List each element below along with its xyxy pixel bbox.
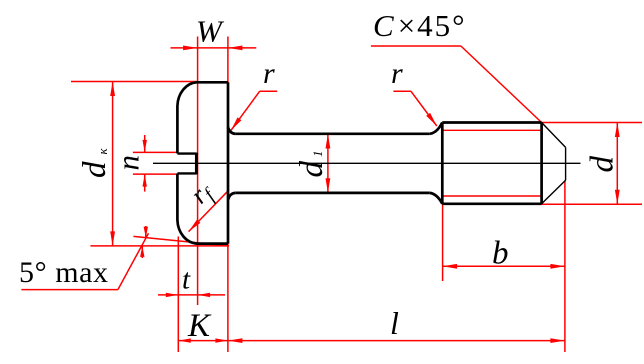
leader for C x 45 chamfer bbox=[371, 45, 461, 47]
svg-text:t: t bbox=[182, 264, 191, 296]
dimension t line bbox=[158, 294, 225, 296]
dimension b extension lines bbox=[442, 204, 444, 281]
svg-text:l: l bbox=[390, 305, 399, 341]
thread runout fillet bottom bbox=[430, 193, 443, 204]
thread minor diameter lines bbox=[442, 129, 541, 131]
svg-text:W: W bbox=[196, 14, 225, 49]
extension line at head left face (K/t left) bbox=[177, 237, 179, 353]
leader for r at head fillet bbox=[260, 90, 278, 92]
dimension d line bbox=[616, 123, 618, 205]
shank top line bbox=[236, 132, 430, 135]
dimension W line bbox=[171, 47, 257, 49]
slot bbox=[177, 152, 196, 154]
5 deg angle arrows bbox=[145, 226, 147, 238]
svg-text:K: K bbox=[187, 308, 212, 344]
head bearing face bbox=[227, 82, 230, 243]
fillet r under head bottom bbox=[228, 193, 236, 200]
dimension d_k extension line top bbox=[71, 81, 198, 83]
svg-text:d: d bbox=[585, 156, 621, 173]
threaded portion outline bbox=[441, 123, 444, 204]
svg-text:5°max: 5°max bbox=[19, 256, 109, 289]
dimension K line bbox=[178, 340, 228, 342]
svg-text:b: b bbox=[492, 236, 509, 272]
head outline bbox=[177, 82, 228, 106]
dimension b line bbox=[443, 265, 565, 267]
svg-text:r: r bbox=[391, 57, 403, 90]
svg-text:C×45°: C×45° bbox=[373, 8, 467, 43]
thread runout fillet top bbox=[430, 123, 443, 134]
dimension n extension lines bbox=[133, 151, 178, 153]
screw axis centerline bbox=[153, 162, 581, 164]
shank bottom line bbox=[236, 192, 430, 195]
dimension n line bbox=[144, 135, 146, 152]
dimension d_k line bbox=[112, 82, 114, 246]
svg-text:d1: d1 bbox=[294, 151, 330, 178]
extension line at slot bottom (W left / t right) bbox=[197, 37, 199, 306]
svg-text:dк: dк bbox=[77, 148, 113, 179]
dimension l line bbox=[228, 340, 565, 342]
leader for r at thread runout bbox=[393, 90, 411, 92]
svg-text:rf: rf bbox=[185, 176, 221, 212]
dimension d1 line bbox=[327, 134, 329, 193]
fillet r under head top bbox=[228, 127, 236, 134]
leader for 5 deg max bbox=[21, 289, 118, 291]
dimension d extension lines bbox=[542, 122, 642, 124]
chamfer cone bbox=[542, 123, 566, 148]
svg-text:r: r bbox=[263, 57, 275, 90]
thread chamfer boundary bbox=[540, 123, 543, 204]
5 deg reference horizontal line bbox=[90, 245, 229, 247]
svg-text:n: n bbox=[111, 155, 146, 171]
5 deg sloped bearing-face line bbox=[133, 236, 228, 246]
extension line at bearing face (W right / K right / l left) bbox=[227, 37, 229, 353]
leader for r_f head corner radius bbox=[189, 190, 229, 231]
